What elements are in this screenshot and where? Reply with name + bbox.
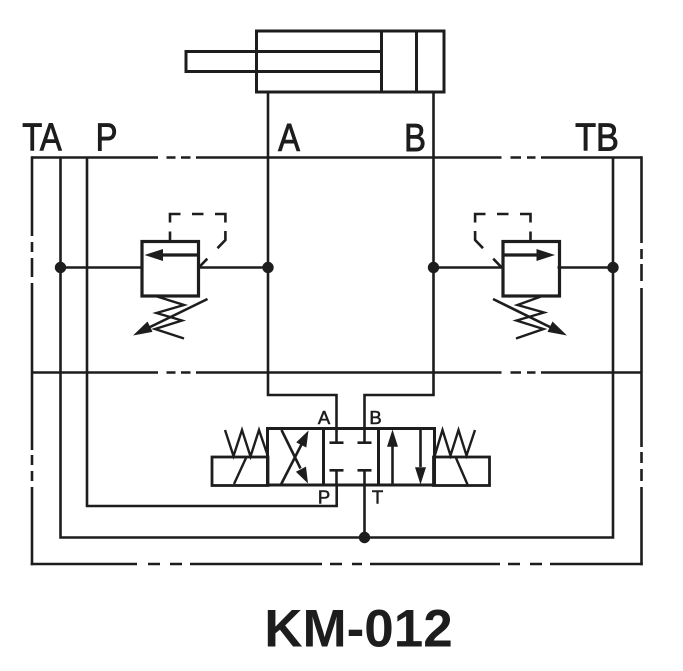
svg-text:B: B	[369, 407, 381, 428]
svg-text:P: P	[96, 115, 118, 159]
svg-text:A: A	[318, 407, 331, 428]
svg-text:TB: TB	[575, 115, 619, 159]
svg-text:B: B	[404, 115, 426, 159]
svg-text:KM-012: KM-012	[264, 600, 453, 659]
svg-text:TA: TA	[22, 115, 61, 159]
svg-text:A: A	[278, 115, 300, 159]
svg-text:T: T	[372, 487, 383, 508]
svg-text:P: P	[318, 487, 330, 508]
